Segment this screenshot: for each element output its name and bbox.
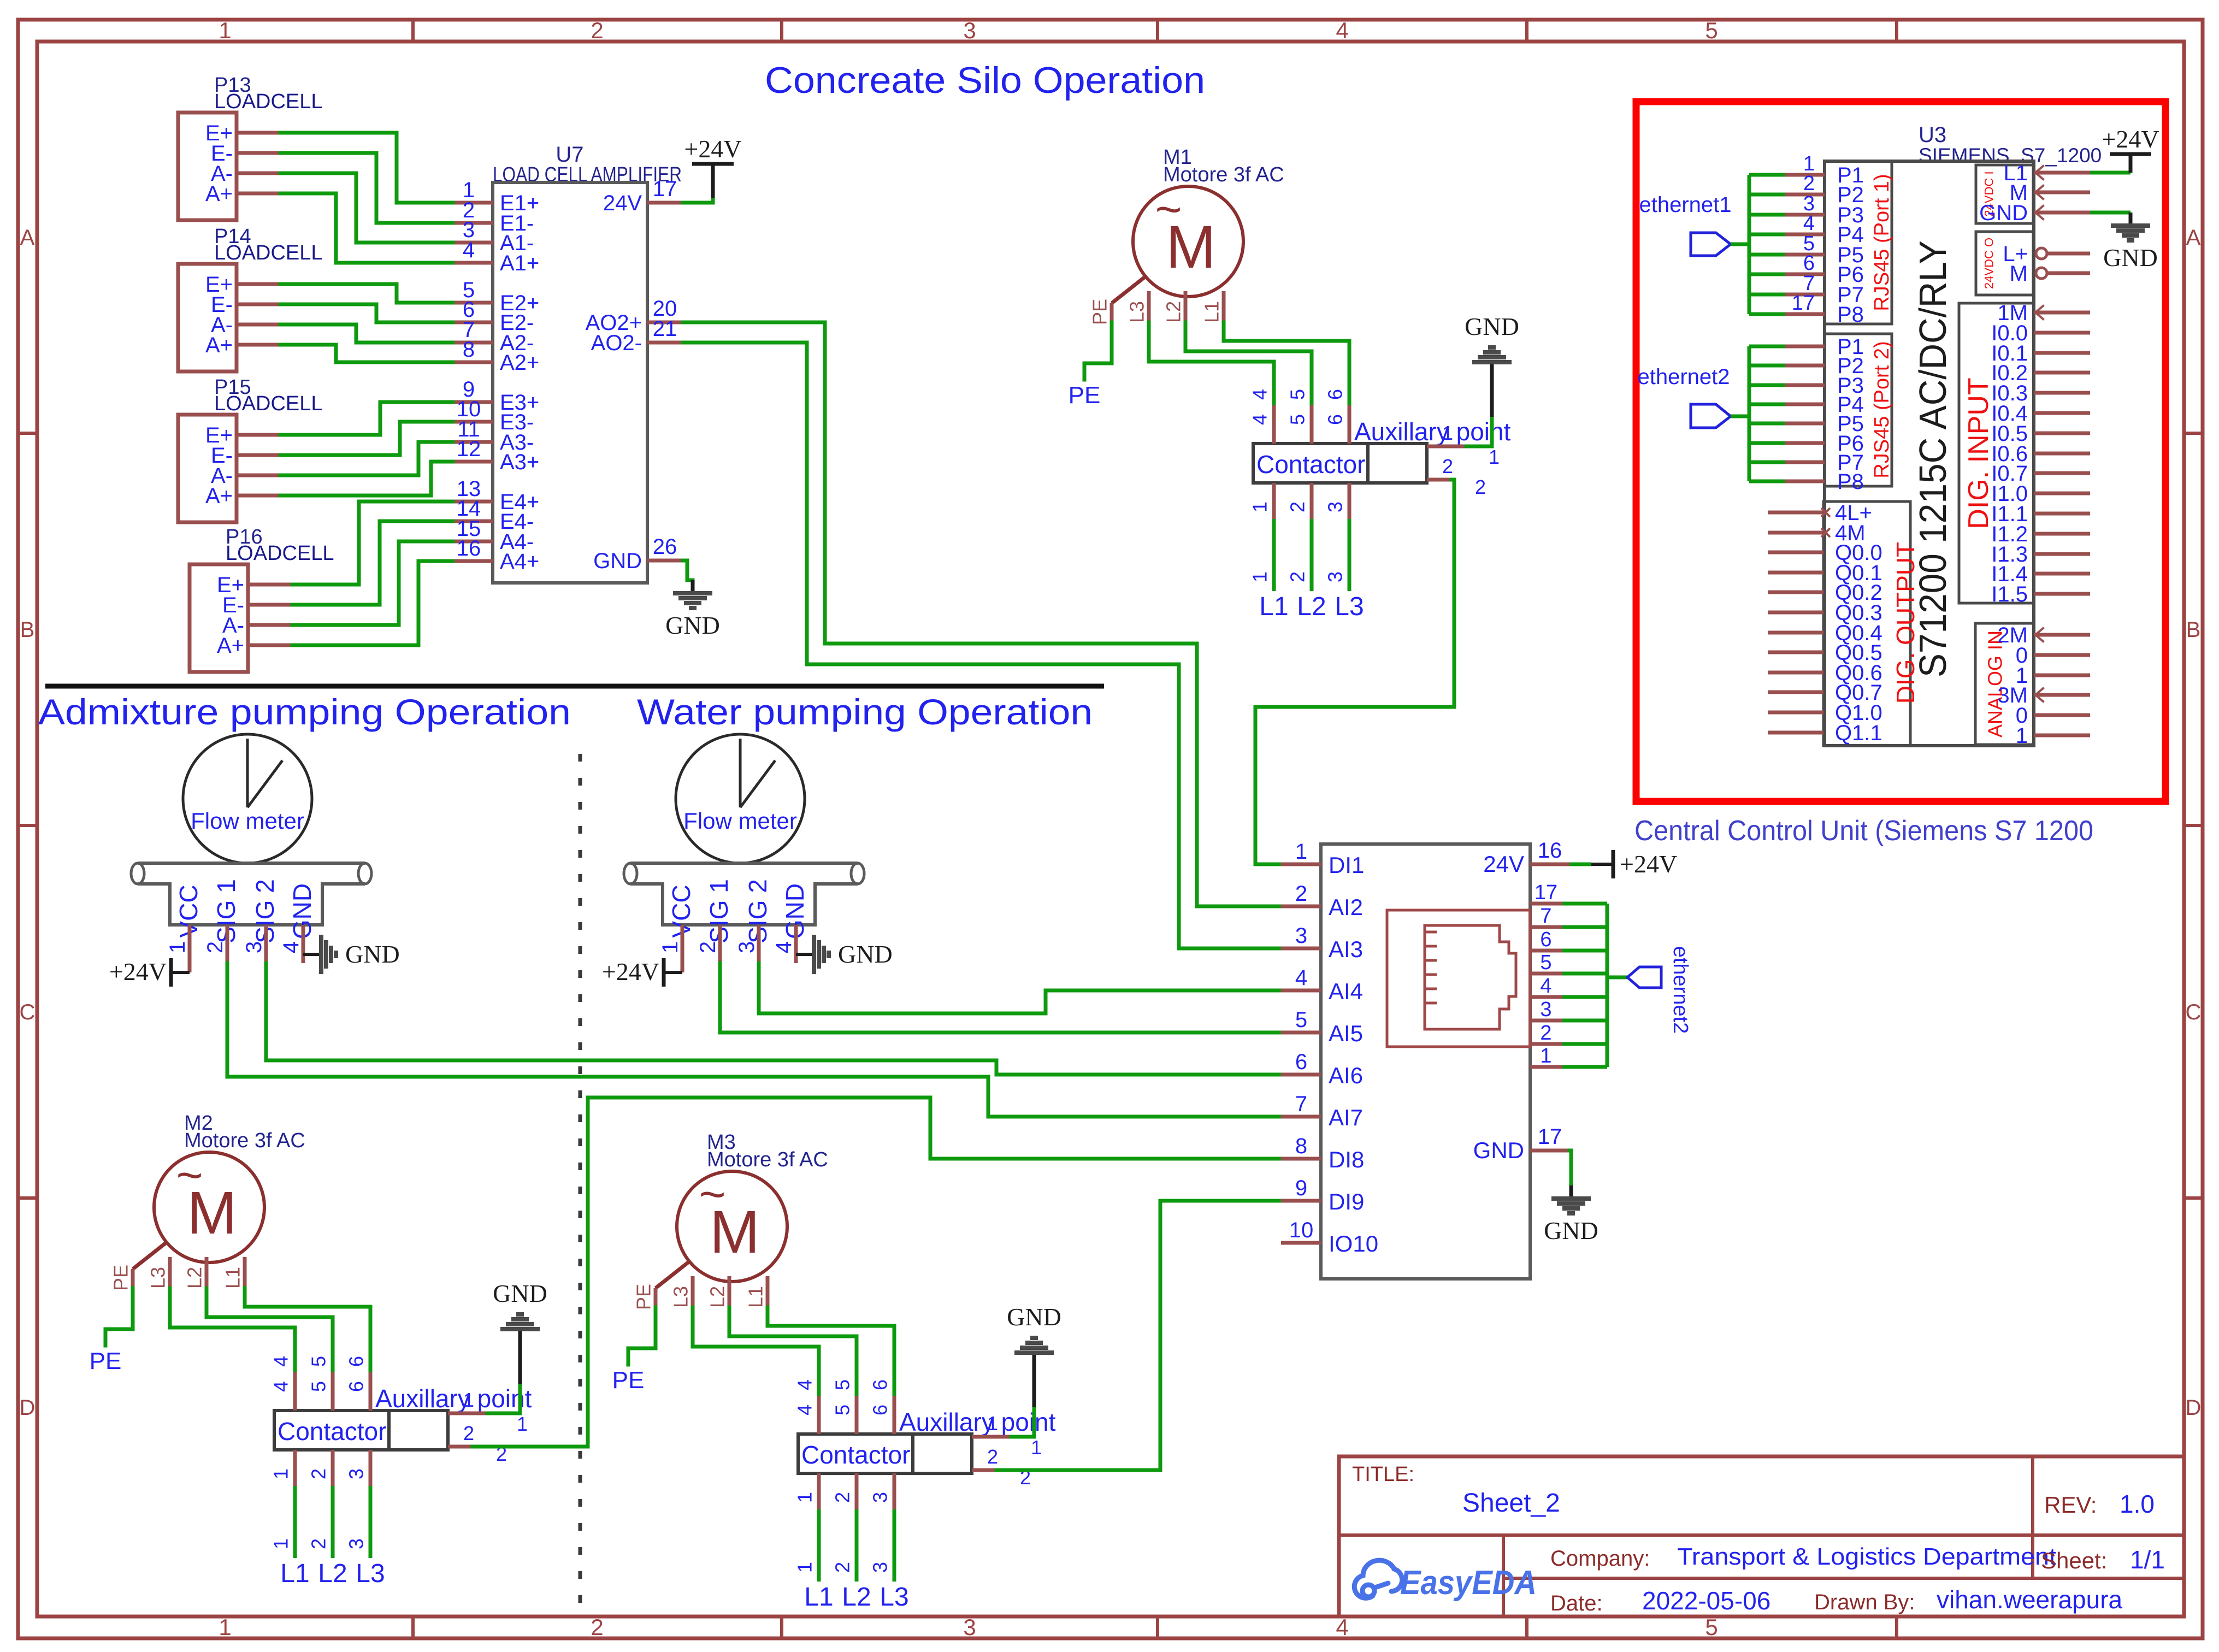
svg-text:PE: PE: [110, 1265, 132, 1291]
wire P15 to U7 pin 11: [280, 442, 453, 475]
svg-text:A: A: [2186, 226, 2201, 250]
wire M1 L2 to contactor pin5: [1185, 322, 1312, 405]
U7 pin 2 E1-: [453, 221, 493, 225]
svg-text:Flow meter: Flow meter: [683, 808, 797, 834]
svg-text:8: 8: [463, 338, 475, 362]
svg-text:L3: L3: [880, 1583, 908, 1612]
svg-text:AI2: AI2: [1329, 894, 1363, 920]
U3 port2 pin P2: [1749, 364, 1785, 368]
wire FM2 SIG1 to AI5: [720, 963, 1281, 1032]
svg-text:~: ~: [176, 1149, 203, 1201]
svg-text:GND: GND: [838, 940, 893, 968]
svg-text:A1+: A1+: [500, 251, 539, 275]
U7 pin 4 A1+: [453, 261, 493, 265]
svg-text:GND: GND: [345, 940, 400, 968]
svg-text:3: 3: [869, 1492, 892, 1503]
contactor M1 aux pin 1: [1427, 445, 1466, 449]
svg-text:Drawn By:: Drawn By:: [1814, 1590, 1915, 1614]
contactor M3 top pin 4: [817, 1396, 821, 1434]
svg-text:2: 2: [591, 17, 603, 43]
svg-text:1: 1: [166, 941, 190, 953]
svg-text:1: 1: [517, 1413, 528, 1435]
svg-text:Auxillary point: Auxillary point: [1354, 417, 1511, 446]
svg-text:6: 6: [1324, 414, 1347, 425]
svg-text:5: 5: [831, 1405, 854, 1415]
svg-text:2: 2: [1540, 1022, 1551, 1045]
svg-text:DI9: DI9: [1329, 1189, 1364, 1214]
svg-text:4: 4: [772, 941, 796, 953]
title block: [1339, 1456, 2184, 1616]
wire M1 aux2: [1255, 480, 1454, 864]
svg-text:4: 4: [270, 1356, 292, 1367]
svg-text:L2: L2: [706, 1286, 729, 1308]
contactor M1 bottom pin 2: [1310, 483, 1314, 519]
svg-text:Flow meter: Flow meter: [191, 808, 304, 834]
svg-text:6: 6: [1295, 1050, 1307, 1074]
svg-text:PE: PE: [90, 1348, 122, 1374]
U3 port2 pin P1: [1749, 345, 1785, 349]
svg-text:3: 3: [1540, 998, 1551, 1021]
svg-text:TITLE:: TITLE:: [1352, 1463, 1414, 1486]
chip pin 9 DI9: [1281, 1199, 1321, 1203]
motor M2 pin L2: [205, 1257, 209, 1288]
RJ45 pin 4: [1530, 995, 1562, 999]
wire M1 L1 to contactor pin6: [1224, 322, 1349, 405]
svg-text:GND: GND: [2103, 244, 2158, 272]
svg-text:L1: L1: [1201, 301, 1223, 323]
svg-text:5: 5: [1705, 17, 1718, 43]
section divider dashed: [579, 754, 582, 1616]
wire P16 to U7 pin 16: [292, 561, 453, 645]
svg-text:ethernet1: ethernet1: [1639, 193, 1731, 217]
svg-text:4: 4: [279, 941, 303, 953]
svg-text:24V: 24V: [603, 191, 642, 215]
svg-text:5: 5: [308, 1381, 330, 1392]
svg-text:Contactor: Contactor: [1256, 450, 1365, 479]
svg-text:6: 6: [869, 1379, 892, 1390]
motor M1 pin PE: [1112, 276, 1146, 303]
svg-text:PE: PE: [633, 1284, 655, 1310]
svg-text:6: 6: [345, 1356, 368, 1367]
svg-text:1: 1: [219, 1614, 231, 1640]
svg-text:Company:: Company:: [1550, 1547, 1650, 1571]
U7 pin 10 E3-: [453, 420, 493, 424]
svg-text:~: ~: [1155, 184, 1182, 235]
svg-text:17: 17: [1538, 1125, 1562, 1149]
wire M1 L3 to contactor pin4: [1149, 322, 1274, 405]
svg-text:L1: L1: [280, 1559, 309, 1588]
wire M3 PE to PE label: [628, 1307, 656, 1365]
svg-text:3: 3: [963, 1614, 976, 1640]
U7 pin 15 A4-: [453, 540, 493, 544]
wire P15 to U7 pin 9: [280, 402, 453, 435]
motor M2 Motore 3f AC circle: [154, 1152, 264, 1262]
U7 pin 16 A4+: [453, 559, 493, 563]
svg-text:5: 5: [1295, 1008, 1307, 1032]
svg-text:D: D: [20, 1396, 36, 1420]
svg-text:2: 2: [831, 1562, 854, 1573]
contactor M3 top pin 5: [855, 1396, 859, 1434]
wire P14 to U7 pin 8: [280, 345, 453, 362]
svg-text:Sheet_2: Sheet_2: [1462, 1489, 1560, 1518]
svg-text:L2: L2: [1162, 301, 1185, 323]
svg-text:U3: U3: [1919, 123, 1946, 147]
svg-text:2: 2: [987, 1445, 998, 1468]
motor M3 pin L2: [728, 1276, 731, 1307]
svg-text:3: 3: [345, 1468, 368, 1479]
chip pin 4 AI4: [1281, 989, 1321, 993]
wire U7 AO2+ to AI2: [683, 322, 1281, 906]
svg-text:Motore 3f AC: Motore 3f AC: [1163, 163, 1284, 186]
wire U3 GND pin: [2090, 211, 2131, 215]
wire chip GND: [1569, 1150, 1571, 1185]
svg-text:+24V: +24V: [1620, 850, 1677, 878]
svg-text:7: 7: [1540, 905, 1551, 928]
motor M1 pin L2: [1184, 291, 1188, 322]
RJ45 pin 17: [1530, 902, 1562, 906]
chip pin 2 AI2: [1281, 905, 1321, 908]
svg-text:L2: L2: [184, 1267, 206, 1289]
motor M3 pin L3: [691, 1276, 695, 1307]
svg-text:C: C: [2186, 1000, 2202, 1024]
svg-text:3: 3: [869, 1562, 892, 1573]
U3 port1 pin 2: [1749, 193, 1785, 197]
wire P13 to U7 pin 2: [280, 153, 453, 223]
U7 pin 3 A1-: [453, 241, 493, 245]
svg-text:24V: 24V: [1483, 851, 1524, 877]
svg-text:AI5: AI5: [1329, 1020, 1363, 1046]
motor M1 pin L1: [1222, 291, 1226, 322]
svg-text:DI8: DI8: [1329, 1147, 1364, 1172]
flow meter pipe: [630, 862, 858, 865]
wire FM1 SIG1 to AI7: [227, 963, 1281, 1117]
svg-text:AI6: AI6: [1329, 1063, 1363, 1088]
RJ45 pin 3: [1530, 1019, 1562, 1023]
svg-text:1/1: 1/1: [2130, 1545, 2165, 1574]
U3 port1 pin 7: [1749, 293, 1785, 297]
U7 pin 14 E4-: [453, 520, 493, 523]
contactor box: [1253, 444, 1368, 483]
svg-text:5: 5: [831, 1379, 854, 1390]
svg-text:1: 1: [658, 941, 682, 953]
svg-text:GND: GND: [665, 611, 720, 639]
svg-text:4: 4: [1540, 975, 1551, 998]
contactor M2 aux pin 2: [448, 1445, 473, 1449]
GND at flow meter pin4: [303, 953, 321, 956]
svg-text:AI4: AI4: [1329, 978, 1363, 1004]
svg-text:Motore 3f AC: Motore 3f AC: [184, 1129, 305, 1152]
svg-text:GND: GND: [1979, 201, 2028, 225]
flow meter dial: [676, 734, 805, 863]
svg-text:3: 3: [1324, 571, 1347, 582]
contactor M3 bottom pin 1: [817, 1473, 821, 1509]
svg-text:Contactor: Contactor: [801, 1441, 910, 1469]
svg-text:LOADCELL: LOADCELL: [214, 90, 323, 113]
svg-text:LOADCELL: LOADCELL: [226, 542, 334, 565]
wire P16 to U7 pin 15: [292, 541, 453, 625]
contactor M3 aux pin 2: [972, 1468, 996, 1472]
svg-text:2: 2: [1286, 571, 1309, 582]
motor M1 pin L3: [1147, 291, 1151, 322]
svg-text:6: 6: [1540, 928, 1551, 951]
svg-text:GND: GND: [593, 549, 642, 573]
svg-text:3: 3: [1324, 501, 1347, 512]
svg-text:L3: L3: [147, 1267, 169, 1289]
GND at flow meter pin4: [796, 953, 813, 956]
svg-text:GND: GND: [1544, 1217, 1598, 1244]
motor M3 Motore 3f AC circle: [677, 1171, 787, 1282]
svg-text:+24V: +24V: [2102, 125, 2159, 153]
svg-text:LOADCELL: LOADCELL: [214, 241, 323, 264]
contactor box: [798, 1434, 913, 1473]
wire P13 to U7 pin 4: [280, 193, 453, 263]
svg-text:1: 1: [794, 1562, 816, 1573]
U3 port1 pin 4: [1749, 233, 1785, 237]
+24V at chip pin16: [1569, 863, 1591, 866]
svg-text:L3: L3: [1126, 301, 1148, 323]
svg-text:16: 16: [457, 536, 481, 560]
ground GND at U3: [2129, 213, 2133, 226]
wire M3 L1 to contactor pin6: [768, 1307, 894, 1396]
contactor M2 top pin 5: [331, 1372, 335, 1411]
svg-text:Transport & Logistics Departme: Transport & Logistics Department: [1677, 1543, 2056, 1570]
contactor M2 top pin 4: [293, 1372, 297, 1411]
ethernet1 green bus: [1748, 175, 1751, 314]
svg-text:C: C: [20, 1000, 36, 1024]
svg-text:6: 6: [869, 1405, 892, 1415]
svg-text:26: 26: [653, 535, 677, 559]
svg-text:A+: A+: [217, 634, 244, 658]
chip pin 1 DI1: [1281, 863, 1321, 866]
GND at U7 pin26: [683, 560, 693, 580]
chip pin 6 AI6: [1281, 1073, 1321, 1077]
svg-text:L2: L2: [318, 1559, 347, 1588]
U3 port2 pin P8: [1749, 480, 1785, 483]
svg-text:1: 1: [463, 1389, 474, 1411]
wire P14 to U7 pin 5: [280, 284, 453, 303]
svg-text:2: 2: [1295, 882, 1307, 906]
contactor box: [274, 1411, 389, 1450]
svg-text:16: 16: [1538, 839, 1562, 863]
U7 pin 6 E2-: [453, 321, 493, 324]
motor M2 pin L1: [243, 1257, 247, 1288]
motor M1 Motore 3f AC circle: [1133, 186, 1243, 297]
chip pin 3 AI3: [1281, 947, 1321, 951]
svg-text:A3+: A3+: [500, 450, 539, 474]
svg-text:+24V: +24V: [602, 958, 659, 986]
wire FM2 SIG2 to AI4: [759, 963, 1281, 1013]
svg-text:2: 2: [591, 1614, 603, 1640]
contactor M1 top pin 4: [1272, 405, 1276, 444]
RJ45 pin 2: [1530, 1042, 1562, 1046]
wire P14 to U7 pin 7: [280, 324, 453, 343]
svg-text:PE: PE: [1069, 382, 1101, 409]
svg-text:2: 2: [1475, 476, 1486, 498]
svg-text:+24V: +24V: [684, 135, 741, 163]
svg-text:1: 1: [219, 17, 231, 43]
wire M3 L2 to contactor pin5: [729, 1307, 857, 1396]
wire U7 AO2- to AI3: [683, 343, 1281, 948]
wire M2 aux2: [473, 1098, 1281, 1447]
svg-text:3: 3: [345, 1538, 368, 1549]
contactor M1 top pin 5: [1310, 405, 1314, 444]
svg-text:D: D: [2186, 1396, 2202, 1420]
svg-text:10: 10: [1289, 1218, 1314, 1242]
svg-text:A: A: [20, 226, 35, 250]
chip pin 7 AI7: [1281, 1115, 1321, 1119]
svg-text:L2: L2: [842, 1583, 871, 1612]
wire U3 L1 to +24V: [2090, 171, 2131, 175]
RJ45 pin 1: [1530, 1065, 1562, 1069]
svg-text:A+: A+: [205, 333, 233, 357]
svg-text:L1: L1: [804, 1583, 833, 1612]
svg-text:2: 2: [1803, 172, 1815, 195]
flow meter pipe: [138, 862, 365, 865]
U3 port1 pin 1: [1749, 173, 1785, 177]
RJ45 pin 7: [1530, 925, 1562, 929]
contactor M2 aux pin 1: [448, 1412, 487, 1415]
wire FM1 SIG2 to AI6: [266, 963, 1281, 1075]
svg-text:L1: L1: [745, 1286, 767, 1308]
svg-text:2: 2: [308, 1538, 330, 1549]
svg-text:3: 3: [735, 941, 759, 953]
U7 pin 11 A3-: [453, 440, 493, 444]
ground GND below chip: [1569, 1185, 1573, 1199]
svg-text:6: 6: [1803, 252, 1815, 275]
ethernet2 green bus: [1748, 346, 1751, 481]
U7 pin 9 E3+: [453, 400, 493, 404]
svg-text:4: 4: [270, 1381, 292, 1392]
contactor M1 top pin 6: [1348, 405, 1352, 444]
contactor M3 bottom pin 3: [893, 1473, 896, 1509]
svg-text:Auxillary point: Auxillary point: [375, 1384, 532, 1413]
svg-text:2022-05-06: 2022-05-06: [1642, 1586, 1771, 1615]
svg-text:1: 1: [794, 1492, 816, 1503]
svg-text:1: 1: [1540, 1045, 1551, 1067]
svg-text:2: 2: [1286, 501, 1309, 512]
svg-text:L2: L2: [1297, 592, 1326, 621]
svg-text:1: 1: [270, 1468, 292, 1479]
24VDC O box: [1976, 232, 2033, 295]
svg-text:DI1: DI1: [1329, 852, 1364, 878]
wire M2 aux1 to GND: [487, 1384, 520, 1413]
svg-text:1: 1: [1442, 422, 1453, 444]
svg-text:AI7: AI7: [1329, 1105, 1363, 1130]
svg-text:EasyEDA: EasyEDA: [1400, 1564, 1537, 1602]
svg-text:5: 5: [1540, 951, 1551, 974]
contactor M2 bottom pin 2: [331, 1450, 335, 1486]
U7 pin 13 E4+: [453, 500, 493, 504]
svg-text:17: 17: [1535, 881, 1557, 904]
wire M3 aux1 to GND: [1011, 1407, 1034, 1437]
svg-text:5: 5: [1286, 414, 1309, 425]
svg-text:Central Control Unit (Siemens: Central Control Unit (Siemens S7 1200: [1634, 815, 2093, 847]
+24V at flow meter VCC: [681, 963, 684, 972]
RJ45 pin 6: [1530, 949, 1562, 953]
DIG. OUTPUT box: [1823, 501, 1910, 746]
U3 port1 pin 5: [1749, 253, 1785, 257]
motor M2 pin PE: [133, 1242, 167, 1269]
svg-text:2: 2: [696, 941, 720, 953]
ground GND of M3 aux1: [1032, 1353, 1036, 1407]
svg-text:12: 12: [457, 437, 481, 461]
svg-text:L1: L1: [1259, 592, 1288, 621]
net flag ethernet2 (chip): [1607, 976, 1627, 980]
svg-text:1: 1: [1249, 501, 1271, 512]
wire M2 L1 to contactor pin6: [245, 1288, 370, 1372]
svg-text:RJS45 (Port 1): RJS45 (Port 1): [1870, 174, 1893, 311]
svg-text:P8: P8: [1837, 470, 1864, 494]
wire P13 to U7 pin 1: [280, 133, 453, 203]
svg-text:A2+: A2+: [500, 351, 539, 375]
svg-text:A4+: A4+: [500, 550, 539, 574]
U3 port2 pin P7: [1749, 461, 1785, 464]
contactor M3 bottom pin 2: [855, 1473, 859, 1509]
wire M2 PE to PE label: [105, 1288, 133, 1346]
svg-text:Concreate Silo Operation: Concreate Silo Operation: [765, 60, 1205, 101]
svg-text:I1.5: I1.5: [1991, 582, 2028, 606]
svg-text:1: 1: [1489, 446, 1500, 468]
svg-text:REV:: REV:: [2044, 1492, 2097, 1518]
svg-text:AO2-: AO2-: [591, 331, 642, 355]
svg-text:GND: GND: [1007, 1303, 1061, 1331]
svg-text:2: 2: [203, 941, 227, 953]
svg-text:Motore 3f AC: Motore 3f AC: [707, 1148, 828, 1171]
svg-text:5: 5: [308, 1356, 330, 1367]
U3 port2 pin P6: [1749, 441, 1785, 445]
+24V at U7 pin17: [683, 198, 713, 203]
contactor M1 bottom pin 1: [1272, 483, 1276, 519]
svg-text:A+: A+: [205, 182, 233, 206]
svg-text:2: 2: [308, 1468, 330, 1479]
flow meter dial: [183, 734, 312, 863]
svg-text:4: 4: [1336, 17, 1348, 43]
svg-text:P8: P8: [1837, 303, 1864, 327]
wire P14 to U7 pin 6: [280, 304, 453, 322]
svg-text:RJS45 (Port 2): RJS45 (Port 2): [1870, 341, 1893, 478]
svg-text:4: 4: [463, 238, 475, 262]
svg-text:GND: GND: [1473, 1137, 1524, 1163]
motor M3 pin L1: [766, 1276, 770, 1307]
contactor M2 bottom pin 1: [293, 1450, 297, 1486]
svg-text:1: 1: [1249, 571, 1271, 582]
svg-text:1: 1: [2016, 724, 2028, 748]
wire P15 to U7 pin 12: [280, 462, 453, 495]
svg-text:+24V: +24V: [109, 958, 167, 986]
svg-text:GND: GND: [1465, 312, 1519, 340]
svg-text:ethernet2: ethernet2: [1637, 365, 1730, 389]
motor M3 pin PE: [656, 1261, 689, 1288]
svg-text:7: 7: [1295, 1092, 1307, 1116]
contactor M2 bottom pin 3: [369, 1450, 373, 1486]
RJ45 pin bus: [1606, 904, 1609, 1067]
svg-text:6: 6: [345, 1381, 368, 1392]
svg-text:~: ~: [699, 1169, 725, 1220]
svg-text:vihan.weerapura: vihan.weerapura: [1937, 1585, 2123, 1614]
contactor M3 top pin 6: [893, 1396, 896, 1434]
svg-text:6: 6: [1324, 389, 1347, 400]
svg-text:1: 1: [987, 1412, 998, 1435]
svg-text:9: 9: [1295, 1176, 1307, 1200]
svg-text:A+: A+: [205, 484, 233, 508]
24VDC I box: [1976, 165, 2033, 223]
svg-text:M: M: [2010, 262, 2028, 286]
svg-text:4: 4: [794, 1379, 816, 1390]
wire P15 to U7 pin 10: [280, 422, 453, 455]
svg-text:PE: PE: [1089, 299, 1111, 325]
svg-text:4: 4: [1249, 414, 1271, 425]
ANALOG IN box: [1975, 623, 2034, 745]
